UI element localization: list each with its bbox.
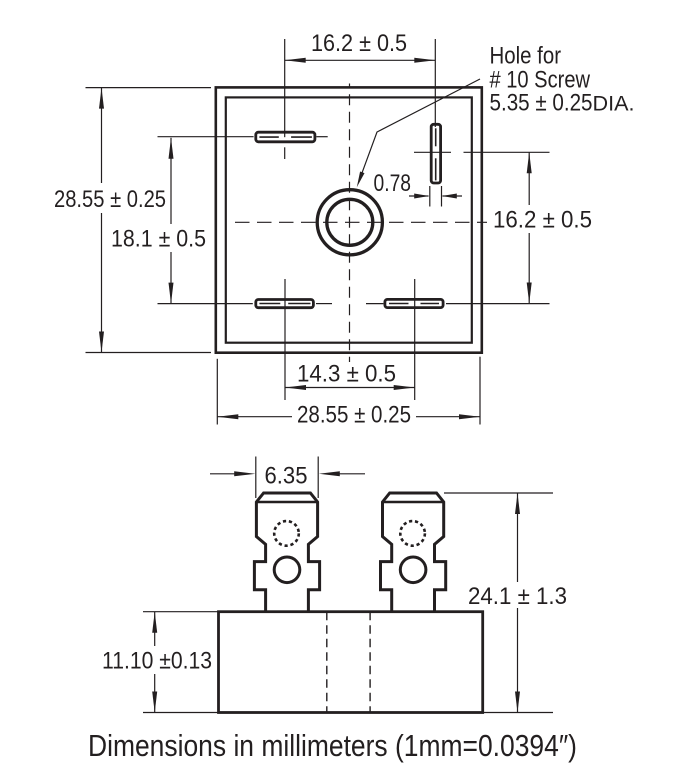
- svg-text:16.2 ± 0.5: 16.2 ± 0.5: [311, 30, 407, 57]
- svg-text:6.35: 6.35: [265, 463, 308, 490]
- svg-text:Hole for: Hole for: [490, 43, 562, 70]
- svg-text:28.55 ± 0.25: 28.55 ± 0.25: [54, 186, 166, 213]
- svg-text:5.35 ± 0.25: 5.35 ± 0.25: [490, 90, 593, 117]
- svg-text:18.1 ± 0.5: 18.1 ± 0.5: [111, 226, 206, 253]
- svg-text:14.3 ± 0.5: 14.3 ± 0.5: [297, 361, 396, 388]
- svg-text:11.10 ±0.13: 11.10 ±0.13: [102, 648, 212, 675]
- svg-text:16.2 ± 0.5: 16.2 ± 0.5: [493, 207, 592, 234]
- svg-text:0.78: 0.78: [374, 170, 412, 197]
- svg-text:Dimensions in millimeters (1mm: Dimensions in millimeters (1mm=0.0394″): [88, 728, 577, 763]
- svg-text:24.1 ± 1.3: 24.1 ± 1.3: [468, 583, 567, 610]
- svg-text:28.55 ± 0.25: 28.55 ± 0.25: [297, 402, 411, 429]
- svg-text:DIA.: DIA.: [593, 93, 635, 116]
